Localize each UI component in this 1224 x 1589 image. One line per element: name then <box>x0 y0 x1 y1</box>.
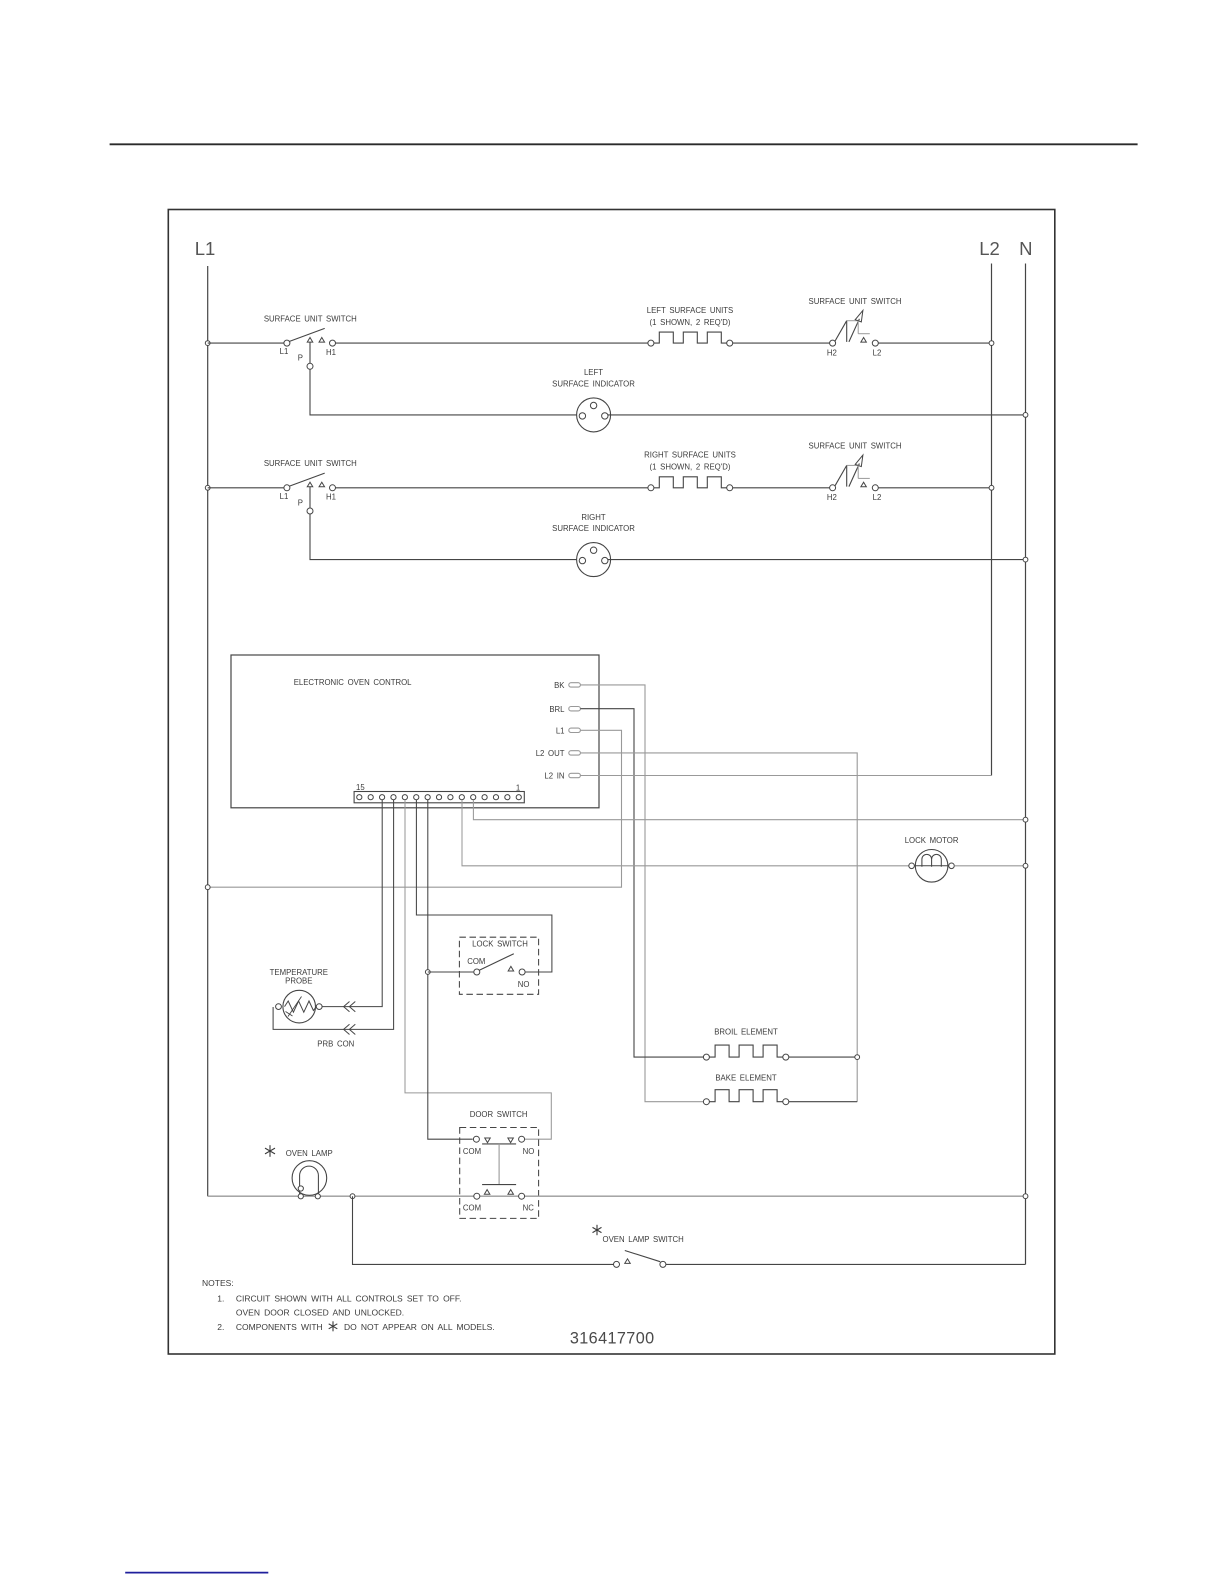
svg-text:L2: L2 <box>873 348 882 357</box>
svg-text:NO: NO <box>523 1147 535 1156</box>
wire L1 rail <box>207 266 209 1196</box>
indicator lamp DS2 (right surface indicator) <box>577 543 611 577</box>
schematic border frame <box>168 210 1055 1355</box>
node N rail / J1-5 wire <box>1023 817 1028 822</box>
door switch lower contact triangles <box>484 1190 490 1195</box>
svg-text:DOOR SWITCH: DOOR SWITCH <box>470 1110 528 1119</box>
node L2 rail / row 2 <box>989 485 994 490</box>
switch S2A contact P triangle <box>307 482 313 487</box>
svg-text:BK: BK <box>554 681 565 690</box>
lock switch blade <box>479 954 514 971</box>
wire pilot branch P of switch S1A <box>309 342 311 363</box>
connector chevrons on probe upper wire <box>344 1002 356 1012</box>
lock switch NO terminal <box>519 969 525 975</box>
switch S1A contact P triangle <box>307 338 313 343</box>
switch S1A contact H1 triangle <box>319 338 325 343</box>
wire pilot branch down to indicator row 1 <box>310 369 577 415</box>
wire J1-11 to door switch NO (gray) <box>405 800 551 1139</box>
wire row 2 from L1 rail to switch terminal L1 <box>208 487 284 489</box>
switch S1A terminal P <box>307 363 313 369</box>
switch S2B terminal H2 <box>830 485 836 491</box>
switch S1A terminal L1 <box>284 340 290 346</box>
door switch upper blade bar <box>482 1143 516 1145</box>
svg-text:L1: L1 <box>280 347 289 356</box>
wire pilot branch P of switch S2A <box>309 487 311 508</box>
wire row 1 from L1 rail to switch terminal L1 <box>208 342 284 344</box>
oven lamp switch SW5 blade <box>625 1251 660 1262</box>
wire bake element to L2 OUT wire <box>789 1101 857 1103</box>
wire row 1 element to switch terminal H2 <box>733 342 830 344</box>
door switch upper NO terminal <box>519 1136 525 1142</box>
wire row 2 H1 to surface units element <box>336 487 648 489</box>
svg-text:15: 15 <box>356 783 365 792</box>
svg-text:SURFACE INDICATOR: SURFACE INDICATOR <box>552 524 635 533</box>
wire J1-13 to temperature probe (upper) <box>322 800 382 1007</box>
svg-text:L2: L2 <box>979 238 1000 259</box>
svg-text:NO: NO <box>518 980 530 989</box>
svg-text:L1: L1 <box>556 726 565 735</box>
temperature probe arrow <box>286 997 302 1017</box>
svg-text:L2 IN: L2 IN <box>544 772 564 781</box>
terminal BRL of U1 <box>569 707 581 711</box>
wire J1-10 to lock switch NO <box>416 800 552 972</box>
svg-text:LOCK SWITCH: LOCK SWITCH <box>472 939 528 948</box>
wire broil element to L2 OUT wire <box>789 1056 857 1058</box>
wire indicator row 2 to N rail <box>608 559 1026 561</box>
electronic oven control box U1 <box>231 655 599 808</box>
wire row 1 switch L2 to L2 rail <box>878 342 991 344</box>
lock switch SW3 dashed enclosure <box>459 937 538 994</box>
door switch plunger bar <box>482 1184 516 1186</box>
node N rail / lock motor wire <box>1023 863 1028 868</box>
svg-text:L2: L2 <box>873 493 882 502</box>
node L1 rail / U1 L1 wire <box>205 885 210 890</box>
svg-text:P: P <box>298 498 303 507</box>
svg-text:BRL: BRL <box>549 705 565 714</box>
wire through lock motor <box>914 865 948 867</box>
door switch lower NC terminal <box>519 1193 525 1199</box>
svg-text:LEFT: LEFT <box>584 368 603 377</box>
wire L2 OUT from U1 down to elements <box>580 753 857 1102</box>
svg-text:SURFACE UNIT SWITCH: SURFACE UNIT SWITCH <box>809 442 902 451</box>
terminal BK of U1 <box>569 683 581 687</box>
switch S1B terminal L2 <box>872 340 878 346</box>
svg-text:BAKE ELEMENT: BAKE ELEMENT <box>715 1074 777 1083</box>
terminal L2 IN of U1 <box>569 773 581 777</box>
wire lock switch COM lead <box>428 971 474 973</box>
wire row 2 switch L2 to L2 rail <box>878 487 991 489</box>
asterisk in note 2 <box>332 1321 334 1331</box>
svg-text:1.: 1. <box>217 1293 224 1303</box>
asterisk for oven lamp switch <box>596 1225 598 1235</box>
svg-text:RIGHT: RIGHT <box>581 513 605 522</box>
connector J1 terminal strip of U1 <box>354 792 524 803</box>
node L1 rail / row 2 <box>205 485 210 490</box>
wire oven lamp row from L1 rail to N rail (gray) <box>208 1195 1026 1197</box>
node lock switch COM junction on J1-9 wire <box>425 970 430 975</box>
svg-text:DO NOT APPEAR ON ALL MODELS.: DO NOT APPEAR ON ALL MODELS. <box>344 1322 495 1332</box>
oven lamp switch SW5 right terminal <box>660 1261 666 1267</box>
lock motor M1 <box>915 850 948 883</box>
svg-text:OVEN LAMP: OVEN LAMP <box>286 1149 333 1158</box>
wire J1-5 to N rail <box>473 800 1025 820</box>
temperature probe terminals <box>276 1004 282 1010</box>
wire J1-9 to lock switch COM and door switch COM <box>428 800 473 1139</box>
svg-text:H2: H2 <box>827 493 837 502</box>
heating element R2 (right surface units) <box>654 477 727 488</box>
switch S2B terminal L2 <box>872 485 878 491</box>
svg-text:SURFACE UNIT SWITCH: SURFACE UNIT SWITCH <box>264 314 357 323</box>
temperature probe RT1 body <box>283 990 316 1023</box>
wire indicator row 1 to N rail <box>608 414 1026 416</box>
svg-text:OVEN DOOR CLOSED AND UNLOCKED.: OVEN DOOR CLOSED AND UNLOCKED. <box>236 1308 404 1318</box>
wire BRL from U1 to broil element <box>580 709 703 1057</box>
door switch upper contact triangles <box>485 1138 491 1143</box>
node N rail / indicator row 2 <box>1023 557 1028 562</box>
door switch lower COM terminal <box>474 1193 480 1199</box>
svg-text:316417700: 316417700 <box>570 1330 655 1348</box>
svg-text:H1: H1 <box>326 348 336 357</box>
wire N rail <box>1025 264 1027 1265</box>
svg-text:L1: L1 <box>280 492 289 501</box>
wire L1 from U1 to L1 rail (gray) <box>208 730 622 887</box>
wire row 1 H1 to surface units element <box>336 342 648 344</box>
heating element R1 (left surface units) <box>654 332 727 343</box>
svg-text:SURFACE UNIT SWITCH: SURFACE UNIT SWITCH <box>809 297 902 306</box>
switch S2B blade and bimetal <box>835 465 847 485</box>
wire lock motor to N rail (gray) <box>954 865 1025 867</box>
connector chevrons on probe lower wire <box>344 1024 356 1034</box>
svg-text:2.: 2. <box>217 1322 224 1332</box>
svg-text:TEMPERATURE: TEMPERATURE <box>270 968 328 977</box>
switch S2B contact triangle <box>861 482 867 487</box>
node L2 OUT wire / broil element <box>855 1055 860 1060</box>
svg-text:NC: NC <box>523 1204 535 1213</box>
svg-text:SURFACE UNIT SWITCH: SURFACE UNIT SWITCH <box>264 459 357 468</box>
switch S2A terminal P <box>307 508 313 514</box>
svg-text:ELECTRONIC OVEN CONTROL: ELECTRONIC OVEN CONTROL <box>294 678 412 687</box>
svg-text:P: P <box>298 354 303 363</box>
switch S2A terminal H1 <box>330 485 336 491</box>
svg-text:COMPONENTS WITH: COMPONENTS WITH <box>236 1322 323 1332</box>
svg-text:H2: H2 <box>827 348 837 357</box>
oven lamp switch SW5 contact triangle <box>625 1259 631 1264</box>
indicator lamp DS1 (left surface indicator) <box>577 398 611 432</box>
node N rail / indicator row 1 <box>1023 413 1028 418</box>
svg-text:PROBE: PROBE <box>285 977 312 986</box>
wire pilot branch down to indicator row 2 <box>310 514 577 560</box>
svg-text:LEFT SURFACE UNITS: LEFT SURFACE UNITS <box>647 306 733 315</box>
lock switch NO contact triangle <box>508 966 514 971</box>
wire branch to oven lamp switch <box>353 1196 614 1264</box>
node L1 rail / row 1 <box>205 341 210 346</box>
lock switch COM terminal <box>474 969 480 975</box>
svg-text:H1: H1 <box>326 493 336 502</box>
wire L2 IN from U1 to L2 rail (gray) <box>580 775 991 777</box>
svg-text:PRB CON: PRB CON <box>317 1039 354 1048</box>
wire L2 rail <box>991 264 993 776</box>
asterisk for oven lamp <box>269 1145 271 1157</box>
oven lamp switch SW5 left terminal <box>614 1261 620 1267</box>
svg-text:OVEN LAMP SWITCH: OVEN LAMP SWITCH <box>603 1235 684 1244</box>
switch S2A terminal L1 <box>284 485 290 491</box>
switch S1B contact triangle <box>861 338 867 343</box>
svg-text:(1 SHOWN, 2 REQ'D): (1 SHOWN, 2 REQ'D) <box>650 463 731 472</box>
top rule <box>110 143 1138 145</box>
wire J1-6 to lock motor (gray) <box>462 800 909 866</box>
svg-text:RIGHT SURFACE UNITS: RIGHT SURFACE UNITS <box>644 451 736 460</box>
terminal L2 OUT of U1 <box>569 751 581 755</box>
switch S2A blade <box>290 473 325 486</box>
wire BK from U1 to bake element (gray) <box>580 685 703 1102</box>
svg-text:L1: L1 <box>195 238 216 259</box>
door switch plunger <box>498 1144 500 1185</box>
door switch SW4 dashed enclosure <box>460 1128 539 1219</box>
bottom blue rule <box>125 1572 268 1574</box>
wire J1-12 to temperature probe (lower) <box>273 800 394 1029</box>
bake element R4 <box>709 1090 782 1102</box>
svg-text:N: N <box>1019 238 1032 259</box>
switch S1A blade <box>290 328 325 341</box>
node L2 rail / row 1 <box>989 341 994 346</box>
node N rail / oven lamp row <box>1023 1194 1028 1199</box>
svg-text:COM: COM <box>463 1204 481 1213</box>
node oven lamp switch branch <box>350 1194 355 1199</box>
broil element R3 <box>709 1045 782 1057</box>
switch S1B terminal H2 <box>830 340 836 346</box>
door switch upper COM terminal <box>473 1136 479 1142</box>
svg-text:LOCK MOTOR: LOCK MOTOR <box>905 836 959 845</box>
temperature probe RT1 zigzag element <box>285 1001 317 1012</box>
svg-text:COM: COM <box>463 1147 481 1156</box>
svg-text:COM: COM <box>467 957 485 966</box>
svg-text:CIRCUIT SHOWN WITH ALL CONTROL: CIRCUIT SHOWN WITH ALL CONTROLS SET TO O… <box>236 1293 462 1303</box>
terminal L1 of U1 <box>569 728 581 732</box>
svg-text:SURFACE INDICATOR: SURFACE INDICATOR <box>552 379 635 388</box>
svg-text:(1 SHOWN, 2 REQ'D): (1 SHOWN, 2 REQ'D) <box>650 318 731 327</box>
wire row 2 element to switch terminal H2 <box>733 487 830 489</box>
wire oven lamp switch to N rail <box>666 1263 1026 1265</box>
svg-text:NOTES:: NOTES: <box>202 1278 234 1288</box>
svg-text:BROIL ELEMENT: BROIL ELEMENT <box>714 1027 778 1036</box>
switch S2A contact H1 triangle <box>319 482 325 487</box>
oven lamp DS3 <box>292 1161 327 1196</box>
svg-text:1: 1 <box>516 784 520 793</box>
svg-text:L2 OUT: L2 OUT <box>536 749 565 758</box>
switch S1B blade and bimetal <box>835 321 847 341</box>
switch S1A terminal H1 <box>330 340 336 346</box>
